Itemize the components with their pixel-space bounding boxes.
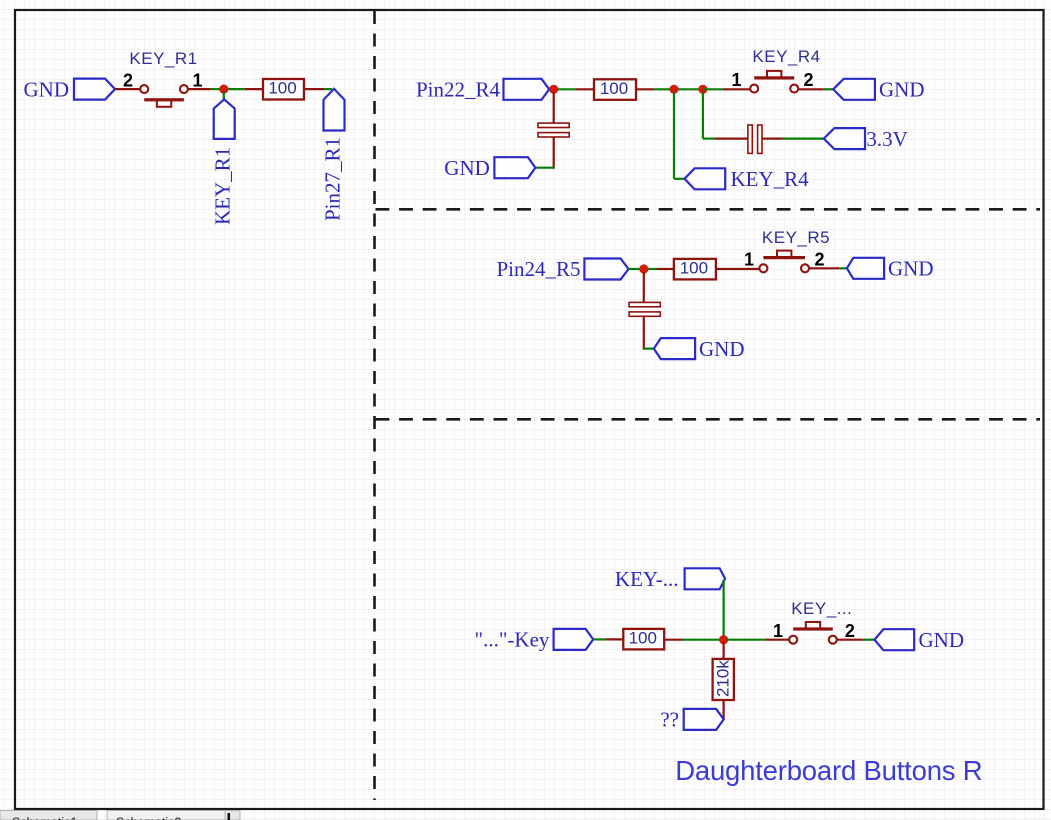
wire junction B1 to resistor [558, 88, 576, 90]
svg-text:Schematic2: Schematic2 [116, 816, 181, 820]
sheet tab 3 [225, 811, 240, 820]
wire capacitor to GND port [643, 317, 645, 350]
svg-text:2: 2 [803, 70, 813, 90]
wire junction B3 to switch pin 1 [703, 88, 723, 90]
resistor R1 100 [263, 79, 304, 100]
svg-text:1: 1 [773, 621, 783, 641]
wire resistor to junction D [664, 639, 682, 641]
horizontal dashed divider 2 [376, 418, 1041, 421]
wire port to resistor [593, 638, 605, 640]
svg-text:GND: GND [879, 78, 925, 102]
svg-text:KEY_R1: KEY_R1 [129, 49, 197, 68]
svg-text:GND: GND [919, 628, 965, 652]
svg-text:GND: GND [699, 337, 745, 361]
wire junction to resistor [227, 88, 245, 90]
wire capacitor to GND port [553, 138, 555, 169]
wire junction B3 down to capacitor C2b [702, 92, 704, 138]
horizontal dashed divider 1 [376, 208, 1041, 211]
resistor R4 100 [623, 629, 664, 650]
port Pin24_R5 [584, 259, 628, 280]
port Pin27_R1 (vertical) [324, 89, 345, 131]
resistor R2 100 [594, 79, 636, 100]
svg-text:KEY_...: KEY_... [791, 599, 852, 618]
port GND (circuit 2 lower-left) [494, 157, 535, 178]
wire junction B2 down to KEY_R4 port [673, 92, 675, 179]
svg-text:Daughterboard Buttons R: Daughterboard Buttons R [675, 755, 982, 786]
port GND (circuit 3 bottom) [654, 338, 695, 359]
wire switch pin 2 to GND port [798, 88, 823, 90]
svg-text:100: 100 [680, 258, 708, 277]
node junction B3 [698, 85, 707, 94]
resistor R3 100 [674, 259, 716, 280]
wire junction C to resistor [648, 268, 657, 270]
wire resistor R5 to ?? port [722, 700, 724, 719]
port GND (circuit 4) [875, 629, 915, 650]
svg-text:1: 1 [192, 71, 202, 91]
vertical dashed divider [373, 11, 376, 800]
wire junction down to KEY_R1 port [223, 92, 225, 100]
switch KEY_R4 [767, 71, 781, 78]
svg-text:100: 100 [629, 628, 657, 647]
svg-text:100: 100 [268, 79, 296, 98]
svg-text:Schematic1: Schematic1 [12, 816, 77, 820]
node junction A [219, 85, 228, 94]
capacitor C2b [748, 125, 752, 153]
port KEY-... (top) [685, 568, 726, 589]
node junction B1 [549, 85, 558, 94]
port 3.3V [824, 128, 865, 149]
resistor R5 210k (vertical) [713, 659, 734, 700]
svg-text:??: ?? [660, 708, 679, 732]
svg-text:KEY_R4: KEY_R4 [731, 167, 810, 191]
svg-text:3.3V: 3.3V [866, 127, 907, 151]
svg-text:GND: GND [444, 156, 490, 180]
port Pin22_R4 [504, 79, 550, 100]
svg-text:2: 2 [845, 621, 855, 641]
svg-text:100: 100 [600, 79, 628, 98]
wire resistor to Pin27_R1 port [304, 88, 324, 90]
svg-text:2: 2 [123, 71, 133, 91]
svg-text:1: 1 [731, 70, 741, 90]
port GND (circuit 1) [74, 79, 115, 100]
wire junction D down to resistor R5 [722, 643, 724, 660]
node junction D [719, 635, 728, 644]
port ?? [684, 709, 724, 730]
wire junction C down to capacitor [643, 272, 645, 303]
svg-text:KEY_R4: KEY_R4 [752, 47, 820, 66]
wire junction B1 down to capacitor [553, 92, 555, 123]
wire capacitor C2b to 3.3V port [762, 138, 782, 140]
port "..."-Key [554, 629, 594, 650]
port KEY_R4 (net) [685, 168, 726, 189]
svg-text:1: 1 [744, 250, 754, 270]
svg-text:2: 2 [814, 250, 824, 270]
switch KEY_... [806, 622, 820, 629]
wire GND to switch pin 2 [115, 88, 141, 90]
switch KEY_R5 [777, 251, 791, 258]
sheet tab 1 [0, 811, 97, 820]
svg-text:GND: GND [888, 257, 934, 281]
svg-text:210k: 210k [714, 660, 733, 697]
capacitor C2a [538, 123, 569, 127]
wire switch pin 2 to GND port [837, 639, 863, 641]
port KEY_R1 (vertical) [214, 99, 235, 139]
svg-text:Pin24_R5: Pin24_R5 [496, 257, 580, 281]
wire pin 1 to junction [188, 88, 210, 90]
wire switch pin 2 to GND port [809, 267, 839, 269]
svg-text:GND: GND [24, 77, 70, 101]
node junction B2 [669, 85, 678, 94]
svg-text:Pin27_R1: Pin27_R1 [321, 137, 345, 221]
svg-text:Pin22_R4: Pin22_R4 [416, 78, 501, 102]
node junction C [639, 264, 648, 273]
port GND (circuit 3 right) [847, 258, 884, 279]
sheet tab 2 [107, 811, 225, 820]
wire junction D to switch pin 1 [727, 639, 766, 641]
wire KEY-... port down to junction D [722, 580, 724, 636]
svg-text:"..."-Key: "..."-Key [475, 628, 550, 652]
wire port to junction C [629, 268, 642, 270]
svg-text:KEY_R1: KEY_R1 [211, 147, 235, 225]
wire resistor to junction B2/B3 [636, 88, 654, 90]
capacitor C3 [629, 302, 660, 306]
wire port to junction B1 [549, 88, 552, 90]
port GND (circuit 2 right) [833, 79, 875, 100]
svg-text:KEY_R5: KEY_R5 [762, 228, 830, 247]
switch KEY_R1 [157, 100, 171, 107]
svg-text:KEY-...: KEY-... [615, 567, 679, 591]
wire resistor to switch pin 1 [716, 268, 759, 270]
